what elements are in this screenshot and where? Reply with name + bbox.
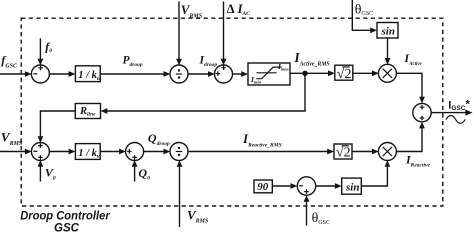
wire f_GSC input: [0, 71, 32, 77]
svg-text:Q0: Q0: [138, 166, 150, 182]
svg-text:θGSC: θGSC: [312, 211, 330, 226]
wire theta_GSC top to sin: [352, 0, 377, 33]
wire 1/k to divider, P_droop: [100, 71, 170, 77]
wire Delta I_AC input: [221, 2, 227, 66]
svg-text:IReactive_RMS: IReactive_RMS: [242, 131, 282, 149]
dashed controller boundary box: [21, 18, 443, 206]
divider D1 (P_droop / V_RMS): [170, 65, 188, 83]
wire S5 to sin bottom: [316, 183, 342, 189]
svg-text:IReactive: IReactive: [405, 152, 430, 168]
wire M2 to final summer, I_Reactive: [396, 122, 425, 152]
svg-text:sin: sin: [381, 25, 395, 37]
wire saturation to sqrt2, I_Active_RMS: [290, 70, 335, 76]
wire feedback from junction down: [101, 73, 306, 114]
svg-text:Qdroop: Qdroop: [148, 131, 170, 147]
wire sqrt2 to multiplier M1: [353, 70, 379, 76]
block current limiter (saturation): [248, 62, 290, 85]
svg-text:VRMS: VRMS: [187, 208, 209, 225]
svg-text:90: 90: [257, 181, 269, 193]
summing junction S3 (V_0 - V_RMS + R_line term): [31, 143, 49, 161]
svg-text:θGSC: θGSC: [355, 3, 373, 18]
summing junction S6 final (I_Active + I_Reactive): [413, 103, 431, 121]
svg-text:V0: V0: [45, 166, 56, 182]
block sqrt2 top: [335, 65, 353, 82]
block sin bottom: [342, 178, 362, 194]
junction dot on I_Active_RMS: [302, 71, 307, 76]
wire S4 to divider D2, Q_droop: [143, 149, 170, 155]
block sqrt2 bottom: [334, 144, 352, 161]
sine wave symbol on output: [446, 116, 465, 124]
wire S3 to 1/k_v block: [49, 149, 75, 155]
wire divider to summer S2, I_droop: [188, 71, 215, 77]
svg-text:Δ IAC: Δ IAC: [227, 2, 251, 17]
block 1/k_w frequency droop gain: [75, 66, 101, 82]
block 1/k_v voltage droop gain: [75, 144, 100, 160]
block sin top: [377, 23, 398, 39]
svg-text:IActive: IActive: [403, 51, 422, 67]
svg-text:sin: sin: [345, 181, 359, 193]
wire R_line to summer S3: [38, 111, 76, 143]
summing junction S1 (f_0 - f_GSC): [31, 65, 49, 83]
divider D2 (Q_droop / V_RMS): [170, 143, 188, 161]
wire sin to multiplier M1: [385, 38, 391, 65]
svg-text:Pdroop: Pdroop: [123, 55, 143, 69]
wire V_RMS bottom input: [177, 160, 183, 227]
svg-text:GSC: GSC: [54, 223, 80, 233]
svg-text:VRMS: VRMS: [1, 130, 23, 147]
svg-text:1 / kv: 1 / kv: [78, 148, 100, 160]
wire theta_GSC bottom input: [304, 195, 310, 225]
block R_line: [75, 104, 100, 119]
wire V_0 input: [38, 160, 44, 181]
block 90 constant: [254, 180, 272, 193]
svg-text:Droop Controller: Droop Controller: [20, 211, 110, 223]
svg-text:√2: √2: [337, 67, 352, 82]
summing junction S4 (+ Q_0): [126, 143, 144, 161]
wire V_RMS left input: [0, 149, 32, 155]
wire Q_0 input: [132, 160, 138, 181]
wire D2 to sqrt2 bottom, I_Reactive_RMS: [188, 149, 334, 155]
wire 1/k_v to summer S4: [100, 149, 126, 155]
wire 90 to summer S5: [272, 183, 297, 189]
svg-text:IGSC*: IGSC*: [448, 98, 470, 112]
svg-text:IActive_RMS: IActive_RMS: [293, 50, 329, 67]
wire V_RMS top input: [176, 2, 182, 66]
multiplier M1 (active): [378, 64, 396, 82]
summing junction S2 (I_droop + Delta I_AC): [215, 65, 233, 83]
wire sin bottom to multiplier M2: [361, 160, 390, 186]
wire M1 to final summer, I_Active: [396, 73, 425, 103]
wire S1 to 1/k block: [49, 71, 75, 77]
wire f_0 input: [38, 38, 44, 65]
multiplier M2 (reactive): [378, 143, 396, 161]
svg-text:VRMS: VRMS: [181, 2, 203, 19]
svg-text:Idroop: Idroop: [199, 54, 218, 68]
svg-text:f0: f0: [45, 40, 52, 54]
wire S2 to saturation block: [232, 71, 248, 77]
wire output I_GSC*: [431, 110, 472, 116]
wire sqrt2 bottom to multiplier M2: [352, 149, 379, 155]
summing junction S5 (90 - theta_GSC): [297, 177, 315, 195]
svg-text:fGSC: fGSC: [1, 53, 18, 70]
svg-text:√2: √2: [336, 146, 351, 161]
